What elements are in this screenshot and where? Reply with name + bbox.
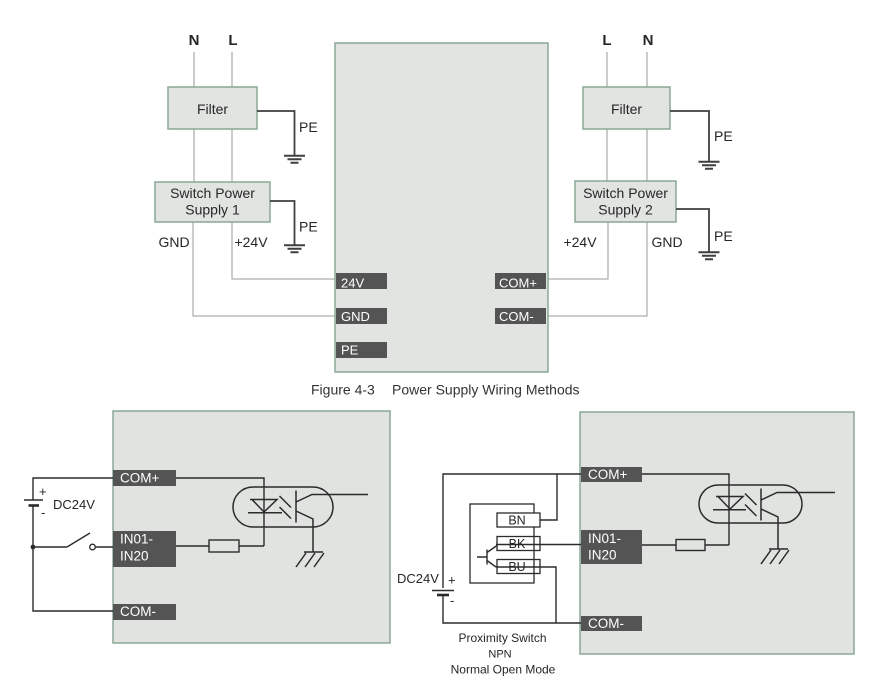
svg-text:+24V: +24V — [234, 234, 268, 250]
svg-text:Supply 2: Supply 2 — [598, 202, 653, 218]
svg-text:BN: BN — [508, 514, 525, 528]
svg-text:Filter: Filter — [197, 101, 228, 117]
svg-text:COM+: COM+ — [588, 467, 627, 482]
svg-text:IN20: IN20 — [588, 548, 617, 563]
svg-text:COM+: COM+ — [499, 275, 537, 290]
svg-text:Supply 1: Supply 1 — [185, 202, 240, 218]
svg-text:Filter: Filter — [611, 101, 642, 117]
svg-text:L: L — [602, 32, 611, 49]
svg-text:DC24V: DC24V — [397, 571, 439, 586]
svg-text:Proximity Switch: Proximity Switch — [458, 631, 546, 645]
svg-text:COM-: COM- — [120, 604, 156, 619]
svg-text:PE: PE — [299, 219, 318, 235]
svg-text:N: N — [189, 32, 200, 49]
svg-text:Normal Open Mode: Normal Open Mode — [451, 663, 556, 677]
svg-text:PE: PE — [714, 128, 733, 144]
svg-text:PE: PE — [341, 342, 359, 357]
svg-text:COM+: COM+ — [120, 471, 159, 486]
svg-text:GND: GND — [341, 309, 370, 324]
svg-text:Figure 4-3: Figure 4-3 — [311, 382, 375, 398]
svg-text:L: L — [228, 32, 237, 49]
svg-text:+24V: +24V — [563, 234, 597, 250]
svg-text:GND: GND — [158, 234, 189, 250]
svg-text:PE: PE — [299, 119, 318, 135]
svg-text:COM-: COM- — [499, 309, 534, 324]
svg-text:Switch Power: Switch Power — [170, 185, 255, 201]
svg-text:IN01-: IN01- — [120, 532, 153, 547]
svg-text:24V: 24V — [341, 275, 364, 290]
svg-text:BU: BU — [508, 560, 525, 574]
svg-text:COM-: COM- — [588, 616, 624, 631]
svg-text:-: - — [450, 593, 454, 608]
svg-text:-: - — [41, 505, 45, 520]
svg-text:PE: PE — [714, 228, 733, 244]
svg-text:IN01-: IN01- — [588, 531, 621, 546]
svg-text:N: N — [643, 32, 654, 49]
svg-text:GND: GND — [651, 234, 682, 250]
svg-text:Power Supply Wiring Methods: Power Supply Wiring Methods — [392, 382, 580, 398]
svg-text:DC24V: DC24V — [53, 497, 95, 512]
svg-text:NPN: NPN — [488, 649, 511, 661]
svg-text:+: + — [448, 573, 456, 588]
svg-text:+: + — [39, 484, 47, 499]
svg-text:Switch Power: Switch Power — [583, 185, 668, 201]
svg-text:IN20: IN20 — [120, 549, 149, 564]
svg-text:BK: BK — [509, 537, 526, 551]
